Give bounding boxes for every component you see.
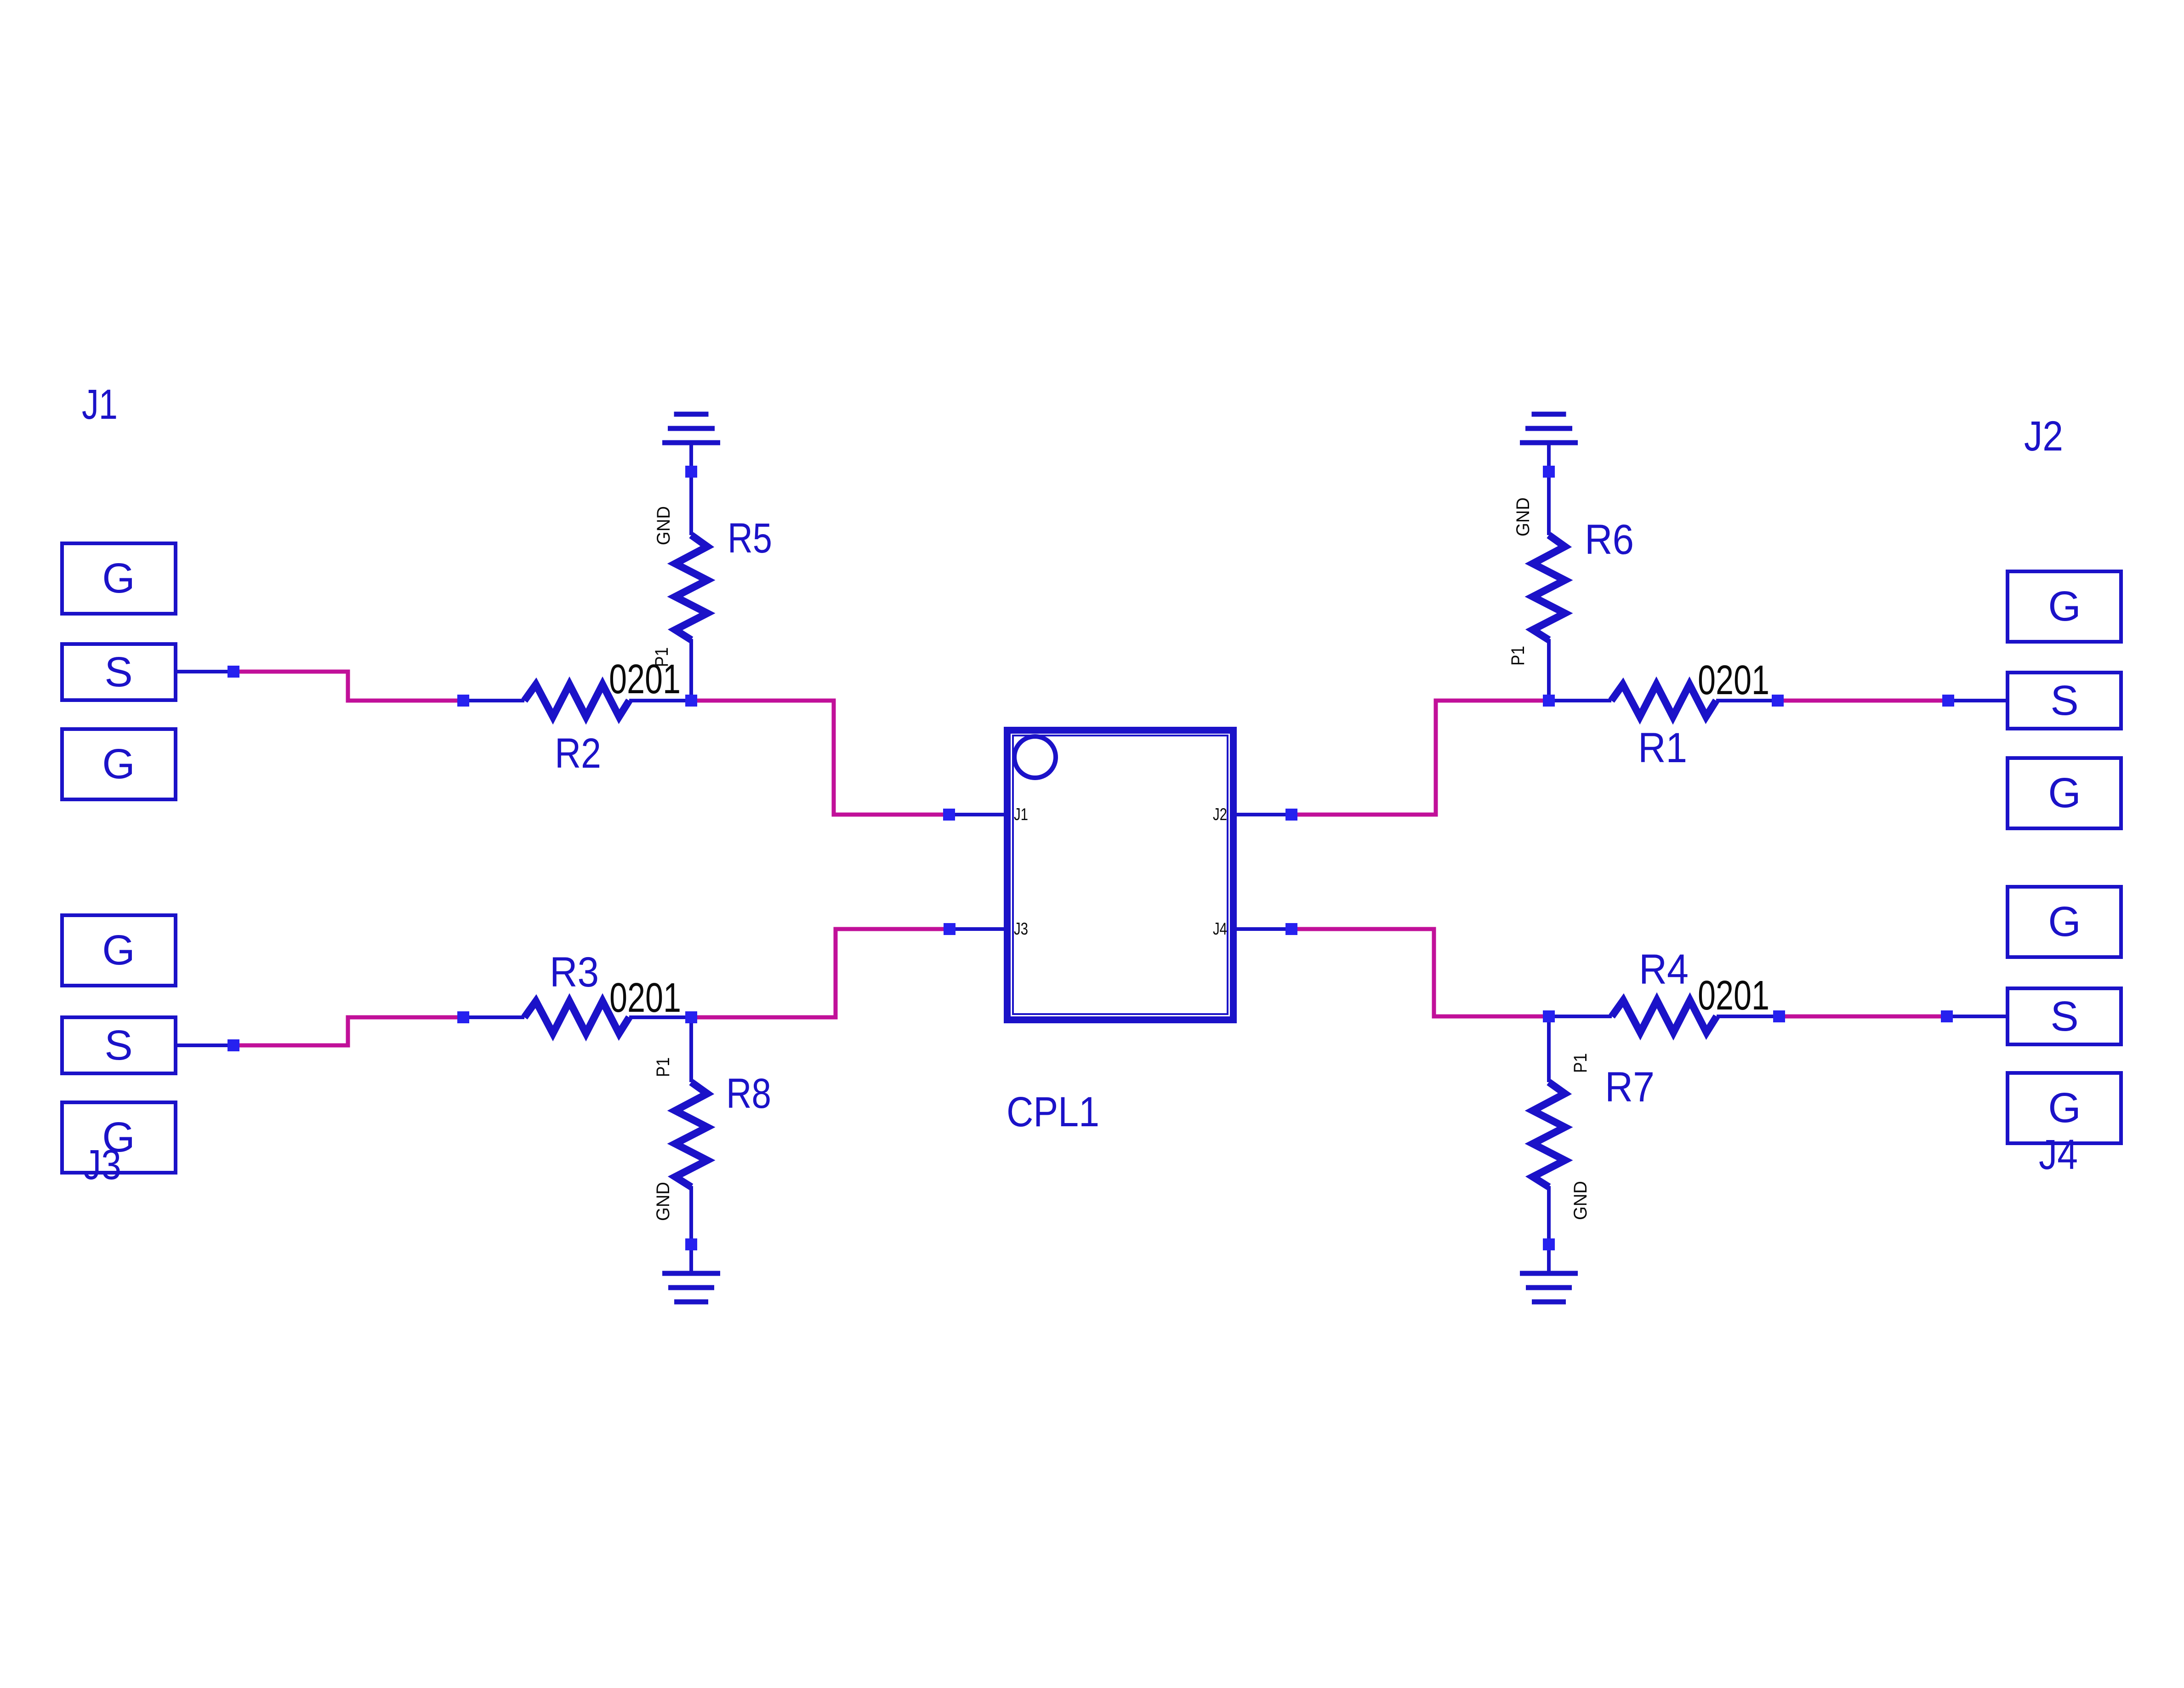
svg-text:R6: R6 xyxy=(1585,516,1634,563)
svg-text:GND: GND xyxy=(653,1182,673,1221)
svg-text:R4: R4 xyxy=(1639,946,1689,993)
svg-text:GND: GND xyxy=(1513,497,1533,536)
svg-text:R8: R8 xyxy=(726,1070,771,1117)
svg-text:R7: R7 xyxy=(1605,1064,1655,1111)
svg-text:J4: J4 xyxy=(2039,1131,2078,1178)
svg-text:R3: R3 xyxy=(550,949,599,996)
svg-text:S: S xyxy=(2050,677,2078,724)
svg-text:0201: 0201 xyxy=(609,975,681,1021)
svg-text:R1: R1 xyxy=(1638,724,1687,771)
svg-text:G: G xyxy=(102,555,135,602)
svg-text:G: G xyxy=(102,927,135,974)
svg-text:J2: J2 xyxy=(2024,413,2063,460)
svg-text:J2: J2 xyxy=(1213,805,1227,824)
svg-text:P1: P1 xyxy=(1570,1053,1591,1073)
svg-text:CPL1: CPL1 xyxy=(1007,1089,1099,1135)
svg-text:J1: J1 xyxy=(82,381,118,428)
svg-text:G: G xyxy=(2048,898,2081,945)
svg-text:G: G xyxy=(2048,583,2081,630)
svg-text:J3: J3 xyxy=(83,1141,121,1188)
svg-text:J4: J4 xyxy=(1213,919,1227,938)
svg-text:R5: R5 xyxy=(728,515,772,562)
svg-text:G: G xyxy=(102,741,135,787)
svg-text:J3: J3 xyxy=(1014,919,1028,938)
svg-text:P1: P1 xyxy=(652,647,672,667)
svg-text:G: G xyxy=(2048,1084,2081,1131)
svg-text:S: S xyxy=(104,1022,132,1069)
svg-text:J1: J1 xyxy=(1014,805,1028,824)
svg-text:GND: GND xyxy=(1570,1181,1591,1220)
svg-text:0201: 0201 xyxy=(1698,973,1769,1019)
svg-text:R2: R2 xyxy=(555,730,601,777)
svg-text:GND: GND xyxy=(654,506,674,545)
svg-text:G: G xyxy=(2048,770,2081,816)
svg-text:P1: P1 xyxy=(1508,646,1528,666)
svg-text:S: S xyxy=(2050,993,2078,1040)
svg-text:0201: 0201 xyxy=(1698,657,1769,703)
svg-text:S: S xyxy=(104,649,132,696)
svg-text:P1: P1 xyxy=(653,1057,673,1077)
